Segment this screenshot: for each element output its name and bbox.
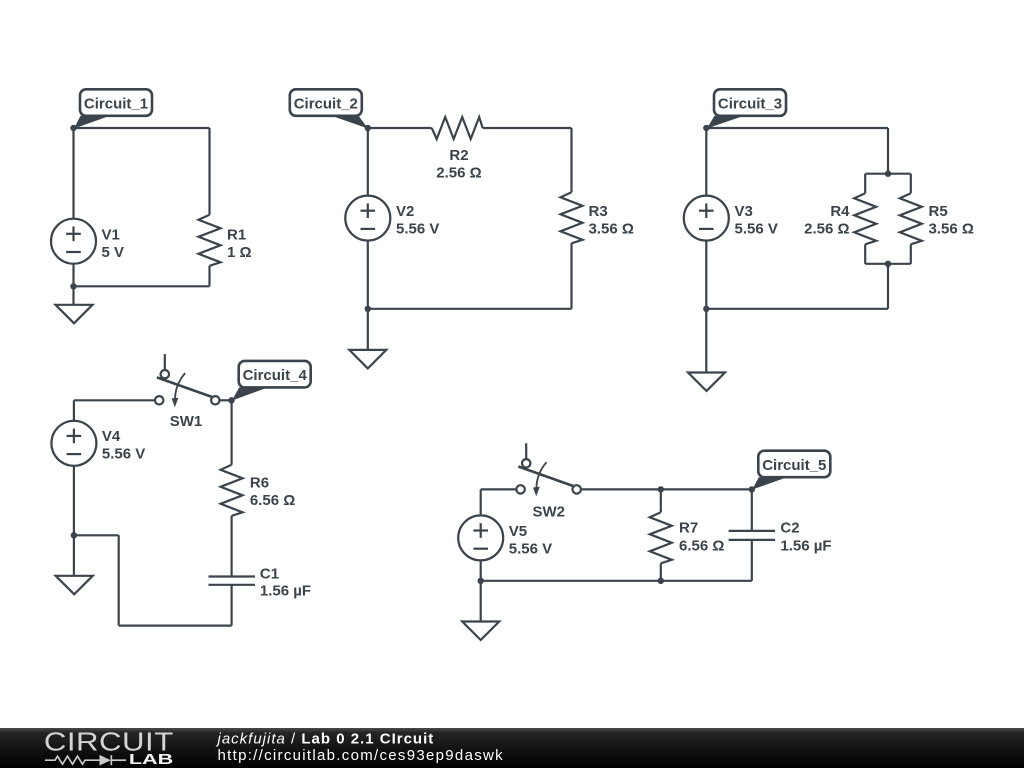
wire R5 upper lead bbox=[910, 174, 912, 194]
wire C2 upper lead bbox=[751, 489, 753, 531]
svg-text:5.56 V: 5.56 V bbox=[509, 540, 552, 557]
node A2 (top-left junction) bbox=[365, 125, 371, 131]
label callout Circuit_2 bbox=[332, 116, 369, 129]
resistor R3 bbox=[561, 192, 583, 243]
wire right upper Circuit_2 bbox=[570, 128, 572, 192]
wire V4 bottom lead bbox=[73, 466, 75, 536]
svg-text:V5: V5 bbox=[509, 523, 527, 540]
voltage source V5 bbox=[458, 515, 503, 560]
wire V5 top lead bbox=[480, 489, 482, 515]
wire node to riser Circuit_4 bbox=[74, 534, 119, 536]
wire ground stem Circuit_3 bbox=[705, 309, 707, 373]
logo diode bbox=[100, 755, 111, 766]
svg-text:V1: V1 bbox=[102, 227, 120, 244]
svg-text:V3: V3 bbox=[735, 203, 753, 220]
svg-text:SW1: SW1 bbox=[170, 413, 203, 430]
wire bottom Circuit_5 bbox=[481, 580, 752, 582]
wire R7 node to C2 node bbox=[661, 488, 752, 490]
ground Circuit_2 bbox=[349, 350, 386, 369]
wire bracket bottom Circuit_3 bbox=[865, 263, 911, 265]
svg-text:Circuit_4: Circuit_4 bbox=[243, 367, 308, 384]
voltage source V4 bbox=[51, 421, 96, 466]
svg-text:http://circuitlab.com/ces93ep9: http://circuitlab.com/ces93ep9daswk bbox=[218, 747, 504, 764]
svg-text:5 V: 5 V bbox=[102, 244, 125, 261]
label callout Circuit_5 bbox=[752, 477, 787, 489]
svg-text:6.56 Ω: 6.56 Ω bbox=[679, 538, 724, 555]
wire R7 lower lead bbox=[660, 563, 662, 581]
logo underline wire + resistor zigzag bbox=[45, 755, 126, 765]
node B4 (bottom junction) bbox=[71, 532, 77, 538]
switch SW2 bbox=[525, 443, 527, 459]
svg-text:R4: R4 bbox=[830, 203, 850, 220]
wire left upper Circuit_2 bbox=[367, 128, 369, 196]
resistor R1 bbox=[199, 215, 221, 266]
node C3-top (parallel top junction) bbox=[885, 171, 891, 177]
svg-text:Circuit_5: Circuit_5 bbox=[762, 457, 826, 474]
ground Circuit_5 bbox=[462, 622, 499, 641]
wire V5 to switch bbox=[481, 488, 517, 490]
wire top Circuit_3 bbox=[706, 127, 888, 129]
svg-text:jackfujita / Lab 0 2.1 CIrcuit: jackfujita / Lab 0 2.1 CIrcuit bbox=[216, 731, 435, 748]
wire C1 down Circuit_4 bbox=[231, 585, 233, 626]
wire right lower Circuit_1 bbox=[208, 266, 210, 287]
svg-text:2.56 Ω: 2.56 Ω bbox=[804, 221, 849, 238]
wire left upper Circuit_3 bbox=[705, 128, 707, 196]
wire right riser Circuit_3 bbox=[887, 264, 889, 309]
wire right lower Circuit_2 bbox=[570, 243, 572, 308]
svg-text:V4: V4 bbox=[102, 428, 121, 445]
label callout Circuit_1 bbox=[74, 116, 110, 129]
wire left lower Circuit_3 bbox=[705, 241, 707, 309]
wire V5 bottom lead bbox=[480, 560, 482, 580]
svg-text:SW2: SW2 bbox=[532, 504, 565, 521]
wire ground stem Circuit_5 bbox=[480, 581, 482, 622]
svg-text:Circuit_2: Circuit_2 bbox=[294, 96, 358, 113]
wire switch to R7 node bbox=[581, 488, 661, 490]
wire R4 lower lead bbox=[864, 244, 866, 263]
wire right upper Circuit_4 bbox=[231, 400, 233, 465]
svg-text:5.56 V: 5.56 V bbox=[735, 221, 778, 238]
wire V4 to switch bbox=[74, 399, 155, 401]
node B1 (bottom junction) bbox=[70, 283, 76, 289]
svg-text:1.56 µF: 1.56 µF bbox=[260, 583, 311, 600]
wire left lower Circuit_1 bbox=[72, 264, 74, 287]
wire V4 top lead bbox=[73, 400, 75, 421]
svg-text:V2: V2 bbox=[396, 203, 414, 220]
node A5 (R7 top junction) bbox=[658, 486, 664, 492]
ground Circuit_4 bbox=[56, 576, 93, 595]
svg-text:R1: R1 bbox=[227, 227, 246, 244]
svg-text:R6: R6 bbox=[250, 475, 269, 492]
wire bottom Circuit_3 bbox=[706, 308, 888, 310]
wire right upper Circuit_1 bbox=[208, 128, 210, 215]
voltage source V1 bbox=[51, 219, 96, 264]
node A3 (top-left junction) bbox=[703, 125, 709, 131]
wire bracket top Circuit_3 bbox=[865, 173, 911, 175]
wire bottom Circuit_1 bbox=[74, 285, 210, 287]
svg-text:R2: R2 bbox=[449, 147, 468, 164]
wire switch to node Circuit_4 bbox=[220, 399, 232, 401]
resistor R6 bbox=[221, 465, 243, 516]
wire R4 upper lead bbox=[864, 174, 866, 194]
capacitor C1 bbox=[209, 575, 256, 577]
node A4 (switch output junction) bbox=[228, 397, 234, 403]
resistor R2 bbox=[432, 117, 483, 139]
wire ground stem Circuit_4 bbox=[73, 535, 75, 576]
wire bottom Circuit_2 bbox=[368, 308, 572, 310]
svg-text:5.56 V: 5.56 V bbox=[396, 221, 439, 238]
svg-text:2.56 Ω: 2.56 Ω bbox=[436, 165, 481, 182]
svg-text:Circuit_3: Circuit_3 bbox=[718, 96, 782, 113]
svg-text:3.56 Ω: 3.56 Ω bbox=[929, 221, 974, 238]
wire C2 lower lead bbox=[751, 540, 753, 581]
node C3-bot (parallel bottom junction) bbox=[885, 261, 891, 267]
svg-text:R7: R7 bbox=[679, 519, 698, 536]
capacitor C2 bbox=[729, 530, 776, 532]
svg-text:R5: R5 bbox=[929, 203, 948, 220]
svg-text:5.56 V: 5.56 V bbox=[102, 446, 145, 463]
wire R5 lower lead bbox=[910, 244, 912, 263]
ground Circuit_1 bbox=[56, 305, 93, 324]
svg-text:C2: C2 bbox=[780, 519, 799, 536]
voltage source V3 bbox=[684, 196, 729, 241]
wire top-left Circuit_2 bbox=[368, 127, 432, 129]
wire R7 upper lead bbox=[660, 489, 662, 512]
wire bottom Circuit_4 bbox=[119, 624, 232, 626]
node B3 (bottom junction) bbox=[703, 306, 709, 312]
svg-text:6.56 Ω: 6.56 Ω bbox=[250, 492, 295, 509]
wire ground stem Circuit_2 bbox=[367, 309, 369, 350]
wire left upper Circuit_1 bbox=[72, 128, 74, 219]
svg-text:1 Ω: 1 Ω bbox=[227, 244, 252, 261]
wire right drop Circuit_3 bbox=[887, 128, 889, 174]
label callout Circuit_4 bbox=[232, 387, 268, 400]
resistor R5 bbox=[900, 193, 922, 244]
resistor R7 bbox=[650, 512, 672, 563]
wire R6 to C1 bbox=[231, 516, 233, 577]
node B5 (bottom junction) bbox=[478, 578, 484, 584]
ground Circuit_3 bbox=[688, 373, 725, 392]
wire top Circuit_1 bbox=[74, 127, 210, 129]
wire left lower Circuit_2 bbox=[367, 241, 369, 309]
wire top-right Circuit_2 bbox=[483, 127, 572, 129]
svg-text:3.56 Ω: 3.56 Ω bbox=[589, 221, 634, 238]
node B2 (bottom junction) bbox=[365, 306, 371, 312]
wire ground stem Circuit_1 bbox=[72, 286, 74, 305]
label callout Circuit_3 bbox=[707, 116, 744, 129]
resistor R4 bbox=[854, 193, 876, 244]
switch SW1 bbox=[164, 354, 166, 370]
node D5 (C2 top junction) bbox=[749, 486, 755, 492]
svg-text:1.56 µF: 1.56 µF bbox=[780, 538, 831, 555]
node A1 (top-left junction) bbox=[70, 125, 76, 131]
svg-text:R3: R3 bbox=[589, 203, 608, 220]
voltage source V2 bbox=[345, 196, 390, 241]
svg-text:C1: C1 bbox=[260, 566, 279, 583]
svg-text:Circuit_1: Circuit_1 bbox=[84, 96, 148, 113]
svg-text:LAB: LAB bbox=[129, 750, 173, 767]
node E5 (R7 bottom junction) bbox=[658, 578, 664, 584]
wire left riser Circuit_4 bbox=[118, 535, 120, 625]
